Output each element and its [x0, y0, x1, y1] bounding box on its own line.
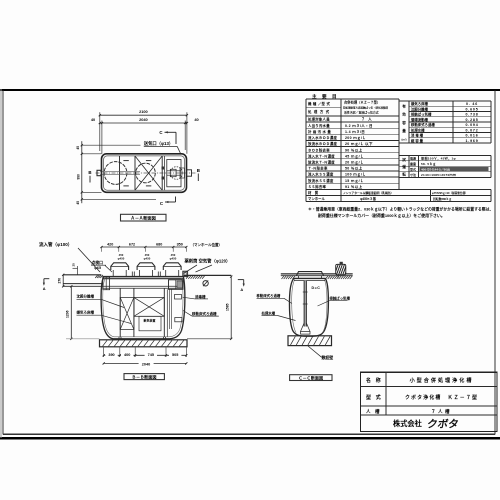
- svg-text:接触ばっ気槽: 接触ばっ気槽: [411, 112, 432, 117]
- svg-text:移動床式ろ過槽: 移動床式ろ過槽: [192, 311, 217, 316]
- svg-text:1206: 1206: [66, 310, 70, 318]
- svg-text:1.969: 1.969: [466, 139, 479, 143]
- svg-text:350: 350: [177, 242, 183, 246]
- svg-text:1.4 ｍ３/日: 1.4 ｍ３/日: [345, 129, 365, 134]
- svg-text:Ａ－Ａ断面図: Ａ－Ａ断面図: [131, 215, 156, 222]
- svg-text:敷設壁: 敷設壁: [322, 355, 334, 360]
- svg-text:0.285: 0.285: [466, 118, 479, 122]
- svg-text:ＢＯＤ除去率: ＢＯＤ除去率: [308, 147, 330, 152]
- svg-text:B: B: [197, 168, 200, 173]
- svg-text:薬剤筒 空気管（φ120）: 薬剤筒 空気管（φ120）: [185, 258, 231, 265]
- svg-text:嫌気ろ床槽: 嫌気ろ床槽: [410, 101, 429, 106]
- svg-text:循環流動槽: 循環流動槽: [410, 117, 429, 122]
- svg-text:流入水ＳＳ濃度: 流入水ＳＳ濃度: [308, 172, 334, 177]
- svg-text:計 画 汚 水 量: 計 画 汚 水 量: [308, 129, 331, 134]
- svg-text:クボタ: クボタ: [426, 418, 460, 431]
- svg-text:45: 45: [76, 146, 80, 150]
- svg-text:マンホール: マンホール: [308, 196, 326, 201]
- svg-text:ノンリアタール＆鋼板亜鉛明（乳褐色）: ノンリアタール＆鋼板亜鉛明（乳褐色）: [343, 191, 393, 195]
- svg-text:2140×1085×2070ｍｍ: 2140×1085×2070ｍｍ: [421, 173, 456, 177]
- svg-text:2040: 2040: [139, 117, 148, 122]
- svg-text:材 質: 材 質: [307, 190, 319, 195]
- svg-text:処 理 方 式: 処 理 方 式: [307, 109, 330, 114]
- svg-text:消 毒 槽: 消 毒 槽: [411, 133, 424, 138]
- svg-text:420: 420: [107, 242, 113, 246]
- svg-text:400: 400: [124, 353, 130, 357]
- svg-text:A: A: [43, 286, 46, 291]
- svg-text:流入水ＢＯＤ濃度: 流入水ＢＯＤ濃度: [308, 135, 337, 140]
- svg-text:放流水ＳＳ濃度: 放流水ＳＳ濃度: [307, 178, 334, 183]
- svg-text:0.072: 0.072: [466, 128, 479, 132]
- svg-text:型式: 型式: [410, 167, 416, 172]
- svg-text:処理対象人員: 処理対象人員: [307, 117, 330, 122]
- svg-text:合併処理（ＫＺ－７型）: 合併処理（ＫＺ－７型）: [344, 100, 380, 105]
- svg-text:寸法: 寸法: [410, 172, 416, 177]
- svg-text:D=C: D=C: [312, 286, 321, 290]
- svg-text:処理水槽: 処理水槽: [410, 127, 425, 132]
- svg-text:量: 量: [402, 128, 406, 133]
- svg-text:流入水Ｔ-Ｎ濃度: 流入水Ｔ-Ｎ濃度: [308, 153, 335, 158]
- svg-text:505: 505: [172, 353, 178, 357]
- svg-text:0.2 ｍ３/人・日: 0.2 ｍ３/人・日: [345, 123, 373, 128]
- svg-text:φ450×３基: φ450×３基: [360, 196, 377, 201]
- svg-text:型 式: 型 式: [366, 394, 381, 401]
- svg-text:25: 25: [71, 263, 75, 267]
- svg-text:φ450: φ450: [144, 257, 151, 261]
- svg-text:流入管（φ100）: 流入管（φ100）: [39, 241, 72, 248]
- svg-text:小型合併処理浄化槽: 小型合併処理浄化槽: [409, 377, 474, 384]
- svg-text:270: 270: [57, 278, 61, 284]
- svg-text:ＳＳ除去率: ＳＳ除去率: [308, 184, 327, 189]
- svg-text:91 ％以上: 91 ％以上: [345, 184, 363, 189]
- svg-text:680: 680: [156, 242, 162, 246]
- svg-text:0.016: 0.016: [466, 134, 479, 138]
- svg-text:重量: 重量: [410, 161, 416, 166]
- svg-text:単相100Ｖ，45Ｗ，1φ: 単相100Ｖ，45Ｗ，1φ: [421, 156, 456, 161]
- svg-text:試: 試: [402, 157, 406, 162]
- svg-text:電源: 電源: [410, 156, 416, 161]
- svg-text:効: 効: [402, 112, 406, 117]
- svg-text:0. 46: 0. 46: [466, 102, 478, 106]
- svg-text:φ450: φ450: [118, 257, 125, 261]
- svg-text:移動床式ろ過槽: 移動床式ろ過槽: [257, 293, 281, 298]
- svg-text:株式会社: 株式会社: [393, 419, 423, 428]
- svg-text:（マンホール位置）: （マンホール位置）: [191, 242, 223, 247]
- svg-text:40: 40: [91, 117, 95, 122]
- svg-text:７人槽: ７人槽: [431, 408, 452, 415]
- svg-text:転: 転: [402, 171, 406, 176]
- svg-text:容: 容: [401, 120, 406, 125]
- svg-text:前処理脱窒ろ床接触ばっ気・硝化液循環: 前処理脱窒ろ床接触ばっ気・硝化液循環: [343, 106, 389, 110]
- svg-text:耐荷重仕様マンホールカバー（耐荷重1000ｋｇ以上）をご使用: 耐荷重仕様マンホールカバー（耐荷重1000ｋｇ以上）をご使用下さい。: [318, 212, 445, 219]
- svg-text:1585: 1585: [226, 303, 230, 311]
- svg-text:消毒槽: 消毒槽: [195, 294, 206, 299]
- svg-text:沈殿分離槽: 沈殿分離槽: [411, 106, 429, 111]
- svg-text:390: 390: [108, 353, 114, 357]
- svg-text:総 容 量: 総 容 量: [411, 138, 424, 143]
- svg-text:活性汚泥／直接ばっ気方式: 活性汚泥／直接ばっ気方式: [344, 110, 379, 115]
- svg-text:(m³): (m³): [402, 138, 407, 142]
- svg-text:A: A: [240, 287, 243, 292]
- svg-text:0.738: 0.738: [466, 113, 479, 117]
- svg-text:放流水Ｔ-Ｎ濃度: 放流水Ｔ-Ｎ濃度: [307, 160, 335, 165]
- svg-text:406-ＢＨ144-5／60台: 406-ＢＨ144-5／60台: [421, 167, 450, 172]
- svg-text:40: 40: [194, 117, 198, 122]
- svg-text:散気装置: 散気装置: [144, 317, 156, 322]
- svg-text:990: 990: [77, 174, 81, 180]
- svg-text:672: 672: [129, 242, 135, 246]
- svg-text:嫌気ろ床槽: 嫌気ろ床槽: [76, 310, 95, 315]
- svg-text:人 槽: 人 槽: [365, 408, 380, 415]
- svg-text:処理水槽: 処理水槽: [261, 310, 276, 315]
- svg-text:有: 有: [402, 104, 406, 109]
- svg-text:Ｔ-Ｎ除去率: Ｔ-Ｎ除去率: [308, 166, 328, 171]
- svg-text:0.605: 0.605: [466, 107, 479, 111]
- svg-text:50 ％以上: 50 ％以上: [345, 166, 363, 171]
- svg-text:接触ばっ気槽: 接触ばっ気槽: [330, 296, 351, 301]
- svg-text:名 称: 名 称: [366, 377, 381, 384]
- svg-text:沈殿分離槽: 沈殿分離槽: [77, 294, 95, 299]
- svg-text:７ 人: ７ 人: [361, 117, 373, 122]
- svg-text:B: B: [88, 170, 91, 175]
- svg-text:＊・普通乗用車（車両総重量2．030ｋｇ以下）より軽いトラッ: ＊・普通乗用車（車両総重量2．030ｋｇ以下）より軽いトラックなどの荷重がかかる…: [308, 206, 493, 213]
- svg-text:Ｃ－Ｃ断面図: Ｃ－Ｃ断面図: [299, 374, 324, 380]
- svg-text:φ450: φ450: [170, 257, 177, 261]
- svg-text:Ｂ－Ｂ断面図: Ｂ－Ｂ断面図: [132, 373, 157, 379]
- svg-text:移動床式ろ過槽: 移動床式ろ過槽: [411, 122, 435, 127]
- svg-text:90 ％以上: 90 ％以上: [345, 147, 363, 152]
- svg-text:クボタ浄化槽 ＫＺ－７型: クボタ浄化槽 ＫＺ－７型: [405, 394, 478, 401]
- svg-text:0.094: 0.094: [466, 123, 479, 127]
- svg-text:745: 745: [148, 353, 154, 357]
- svg-text:機 種 ／型 式: 機 種 ／型 式: [307, 101, 330, 106]
- svg-text:2100: 2100: [139, 109, 148, 114]
- svg-text:2040: 2040: [142, 362, 150, 366]
- svg-text:放流水ＢＯＤ濃度: 放流水ＢＯＤ濃度: [307, 141, 337, 146]
- svg-text:45: 45: [76, 201, 80, 205]
- svg-text:人当り汚水量: 人当り汚水量: [307, 123, 330, 128]
- svg-text:運: 運: [402, 164, 406, 169]
